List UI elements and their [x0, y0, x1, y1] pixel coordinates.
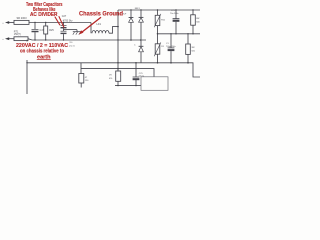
node mid / C171 — [170, 33, 171, 34]
annotation Two filter Capacitors — [26, 2, 63, 18]
node B+ — [117, 26, 119, 28]
svg-text:50 mi: 50 mi — [139, 76, 145, 78]
svg-text:3W: 3W — [191, 47, 194, 49]
annotation arrow to divider 2 — [59, 16, 64, 27]
wire neutral rail — [28, 39, 146, 40]
variable resistor lower R — [154, 34, 161, 63]
svg-text:150(?): 150(?) — [14, 33, 21, 36]
resistor 8W 500 — [191, 10, 196, 34]
node bottom / C136 — [135, 62, 137, 64]
svg-text:700p 200v: 700p 200v — [166, 46, 177, 48]
resistor 3W 500 — [186, 34, 191, 63]
rectifier D131 — [129, 10, 134, 40]
node top rail / divider — [63, 22, 64, 23]
wire heater rail — [81, 69, 154, 77]
node neutral / C131 — [130, 39, 132, 41]
output transformer box — [141, 77, 168, 91]
wire top rail drop to choke — [90, 23, 92, 34]
node top / R500 — [192, 9, 193, 10]
wire feeder vertical — [117, 10, 119, 63]
node bottom / vertical drop — [26, 62, 27, 63]
node bottom / feeder — [117, 62, 119, 64]
rectifier D141 68F1 — [139, 10, 144, 40]
svg-text:ume m: ume m — [69, 46, 76, 48]
node bottom / C171 — [170, 62, 172, 64]
svg-text:70a 200v: 70a 200v — [170, 13, 180, 15]
resistor R 47k — [116, 63, 121, 86]
thermistor RT1 — [14, 37, 28, 41]
node top / R11 — [157, 9, 158, 10]
svg-text:8W: 8W — [196, 18, 199, 20]
wire divider midpoint to chassis — [64, 29, 78, 31]
node mid / R500 — [192, 33, 193, 34]
wire B+ top rail — [118, 9, 200, 11]
terminal L (AC line, arrow to plug) — [3, 21, 15, 24]
svg-text:Chassis Ground: Chassis Ground — [79, 10, 123, 17]
resistor R81 — [79, 63, 84, 88]
node top / C131 — [130, 9, 131, 10]
annotation arrow to divider 1 — [55, 17, 60, 26]
node neutral / D141 — [140, 39, 142, 41]
node neutral / C47 — [34, 39, 35, 40]
wire neutral down drop — [26, 40, 28, 94]
node top rail / C47 — [34, 22, 35, 23]
node top / D141 — [140, 9, 141, 10]
node neutral / divider — [63, 39, 64, 40]
capacitor C71 — [173, 10, 180, 34]
diode D141 lower — [139, 40, 144, 63]
node return / feeder — [117, 85, 118, 86]
wire bottom return — [115, 85, 141, 87]
annotation arrow to chassis ground — [79, 17, 101, 34]
capacitor C27 upper (AC divider) — [61, 23, 67, 28]
svg-text:C47: C47 — [40, 29, 45, 32]
svg-text:88F1: 88F1 — [135, 8, 141, 10]
resistor R25 — [44, 23, 48, 41]
variable resistor R11 — [154, 10, 161, 34]
svg-text:C27: C27 — [62, 15, 67, 18]
svg-text:AC DIVIDER: AC DIVIDER — [30, 12, 58, 18]
capacitor C136 50mfd — [133, 63, 140, 86]
wire bottom rail — [27, 63, 200, 77]
node return / C136 — [135, 85, 136, 86]
svg-text:LF1: LF1 — [97, 22, 102, 26]
node bottom / R11 lower — [157, 62, 159, 64]
node neutral / R25 — [45, 39, 46, 40]
node top / C71 — [175, 9, 176, 10]
svg-text:SR 2003: SR 2003 — [16, 16, 27, 20]
capacitor C171 lower — [168, 34, 175, 63]
node mid / R188 — [187, 33, 188, 34]
capacitor lower (AC divider) — [61, 28, 67, 40]
terminal N (AC neutral, arrow to plug) — [3, 37, 15, 40]
rectifier SR 2003 — [14, 20, 29, 24]
node mid / C71 — [175, 33, 176, 34]
node top rail / R25 — [45, 22, 46, 23]
node neutral / feeder — [117, 39, 118, 40]
wire top rail — [29, 22, 91, 24]
annotation 220VAC text — [16, 42, 70, 61]
wire choke to B+ node — [109, 27, 118, 34]
chassis ground — [73, 30, 81, 35]
wire mid rail — [158, 33, 201, 35]
svg-text:4700 3kv: 4700 3kv — [63, 19, 74, 22]
inductor LF1 — [92, 31, 109, 34]
capacitor C47 — [32, 23, 39, 41]
svg-text:500: 500 — [196, 21, 200, 23]
node mid / R11 — [157, 33, 159, 35]
node bottom / R188 — [187, 62, 189, 64]
node heater / feeder — [117, 68, 119, 70]
svg-text:R25: R25 — [49, 29, 54, 32]
